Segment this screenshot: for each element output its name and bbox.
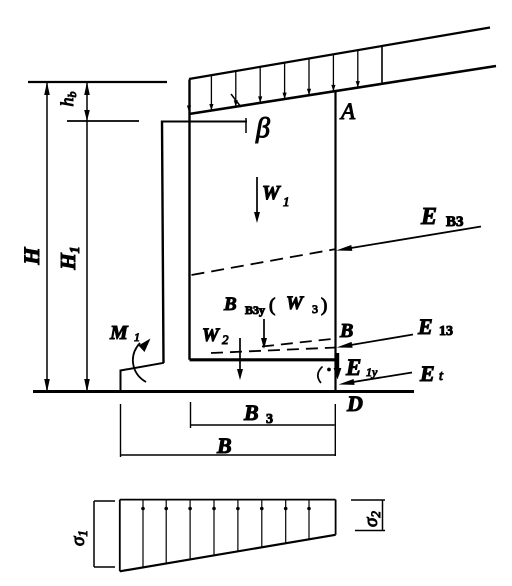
svg-text:A: A (339, 99, 356, 124)
point C mark (318, 367, 323, 384)
B3 left tick (190, 402, 192, 428)
svg-text:E: E (417, 314, 433, 339)
moment M1 arrow (133, 343, 146, 382)
dimension line H (46, 83, 48, 391)
pressure hatch 6 (261, 500, 263, 548)
svg-text:E: E (345, 355, 361, 380)
B left tick (120, 404, 122, 457)
arrow h_b bottom (84, 110, 90, 121)
backfill slope ground line (189, 66, 496, 114)
svg-text:1: 1 (134, 330, 140, 344)
svg-text:1: 1 (283, 194, 290, 209)
svg-text:): ) (321, 295, 327, 316)
svg-text:H1: H1 (56, 246, 83, 270)
svg-text:B: B (223, 294, 237, 315)
svg-text:B: B (216, 433, 232, 458)
pressure hatch 2 (165, 500, 167, 564)
arrow H top (44, 82, 50, 95)
svg-text:D: D (346, 391, 363, 416)
pressure hatch 1 (142, 500, 144, 568)
h_b tick line (67, 120, 139, 122)
beta end tick (245, 118, 247, 133)
sigma1 bracket (93, 501, 95, 567)
arrow H1 bottom (84, 379, 90, 392)
B3/B right tick (334, 404, 336, 456)
surcharge arrow at left edge (187, 106, 191, 113)
pressure diagram bottom edge (120, 535, 336, 572)
lower rupture dashed line (211, 348, 336, 354)
ground surface line left of wall (28, 81, 167, 83)
pressure hatch 3 (189, 500, 191, 560)
svg-text:B: B (339, 320, 353, 342)
svg-text:E: E (420, 204, 437, 230)
svg-text:H: H (19, 247, 44, 266)
dimension B3 line (191, 424, 335, 426)
weight W1 arrow (256, 177, 258, 218)
rupture dashed line to B (262, 339, 336, 347)
wall stem left face (162, 121, 164, 364)
svg-text:B: B (243, 400, 259, 425)
surcharge divider 6 (332, 54, 334, 91)
force E1y arrow (336, 353, 339, 375)
svg-text:B3: B3 (446, 214, 464, 230)
surcharge band top line (189, 28, 490, 80)
svg-text:σ2: σ2 (361, 511, 383, 527)
surcharge divider 2 (235, 71, 237, 107)
vertical plane A-B-D (334, 91, 336, 392)
toe front edge (120, 370, 122, 392)
surcharge divider 3 (259, 67, 261, 103)
surcharge divider 5 (308, 59, 310, 96)
pressure hatch 8 (308, 500, 310, 540)
pressure diagram left edge (119, 500, 121, 572)
svg-text:E: E (419, 361, 435, 386)
weight W3 arrow (263, 319, 265, 345)
dimension B line (121, 454, 337, 456)
force Et arrow line (347, 373, 412, 384)
surcharge divider 1 (210, 75, 212, 110)
svg-text:σ1: σ1 (68, 530, 90, 546)
svg-text:t: t (439, 369, 444, 384)
pressure diagram right edge (335, 500, 337, 535)
svg-text:(: ( (269, 295, 275, 316)
upper rupture dashed line (192, 249, 337, 275)
surcharge divider 7 (357, 50, 359, 88)
force E13 arrow line (345, 335, 413, 347)
svg-text:W: W (286, 293, 304, 314)
arrow H1 top (84, 82, 90, 95)
svg-text:β: β (255, 113, 270, 144)
svg-text:3: 3 (312, 302, 318, 316)
pressure hatch 5 (237, 500, 239, 552)
svg-text:M: M (109, 322, 129, 344)
svg-text:W: W (202, 325, 220, 346)
pressure hatch 4 (213, 500, 215, 556)
wall stem inner face (188, 80, 190, 360)
svg-text:W: W (262, 182, 281, 204)
svg-text:3: 3 (266, 412, 273, 427)
force EB3 arrow line (345, 227, 481, 250)
dimension line H1 (86, 83, 88, 391)
arrow H bottom (44, 379, 50, 392)
sigma2 bracket (382, 500, 384, 531)
weight W2 arrow (239, 338, 241, 375)
surcharge divider 4 (284, 63, 286, 100)
wall stem top edge / beta reference line (161, 121, 247, 123)
surcharge band right edge (381, 46, 383, 84)
heel slab top edge (190, 358, 337, 361)
toe top edge (121, 363, 164, 371)
svg-text:hb: hb (57, 92, 79, 107)
svg-text:2: 2 (222, 332, 229, 347)
svg-text:1y: 1y (366, 365, 378, 379)
svg-text:13: 13 (439, 324, 453, 339)
pressure hatch 7 (285, 500, 287, 544)
svg-text:B3y: B3y (245, 303, 265, 317)
pressure diagram top edge (120, 499, 336, 501)
base ground line (33, 390, 414, 393)
beta hatch tick (231, 94, 241, 107)
